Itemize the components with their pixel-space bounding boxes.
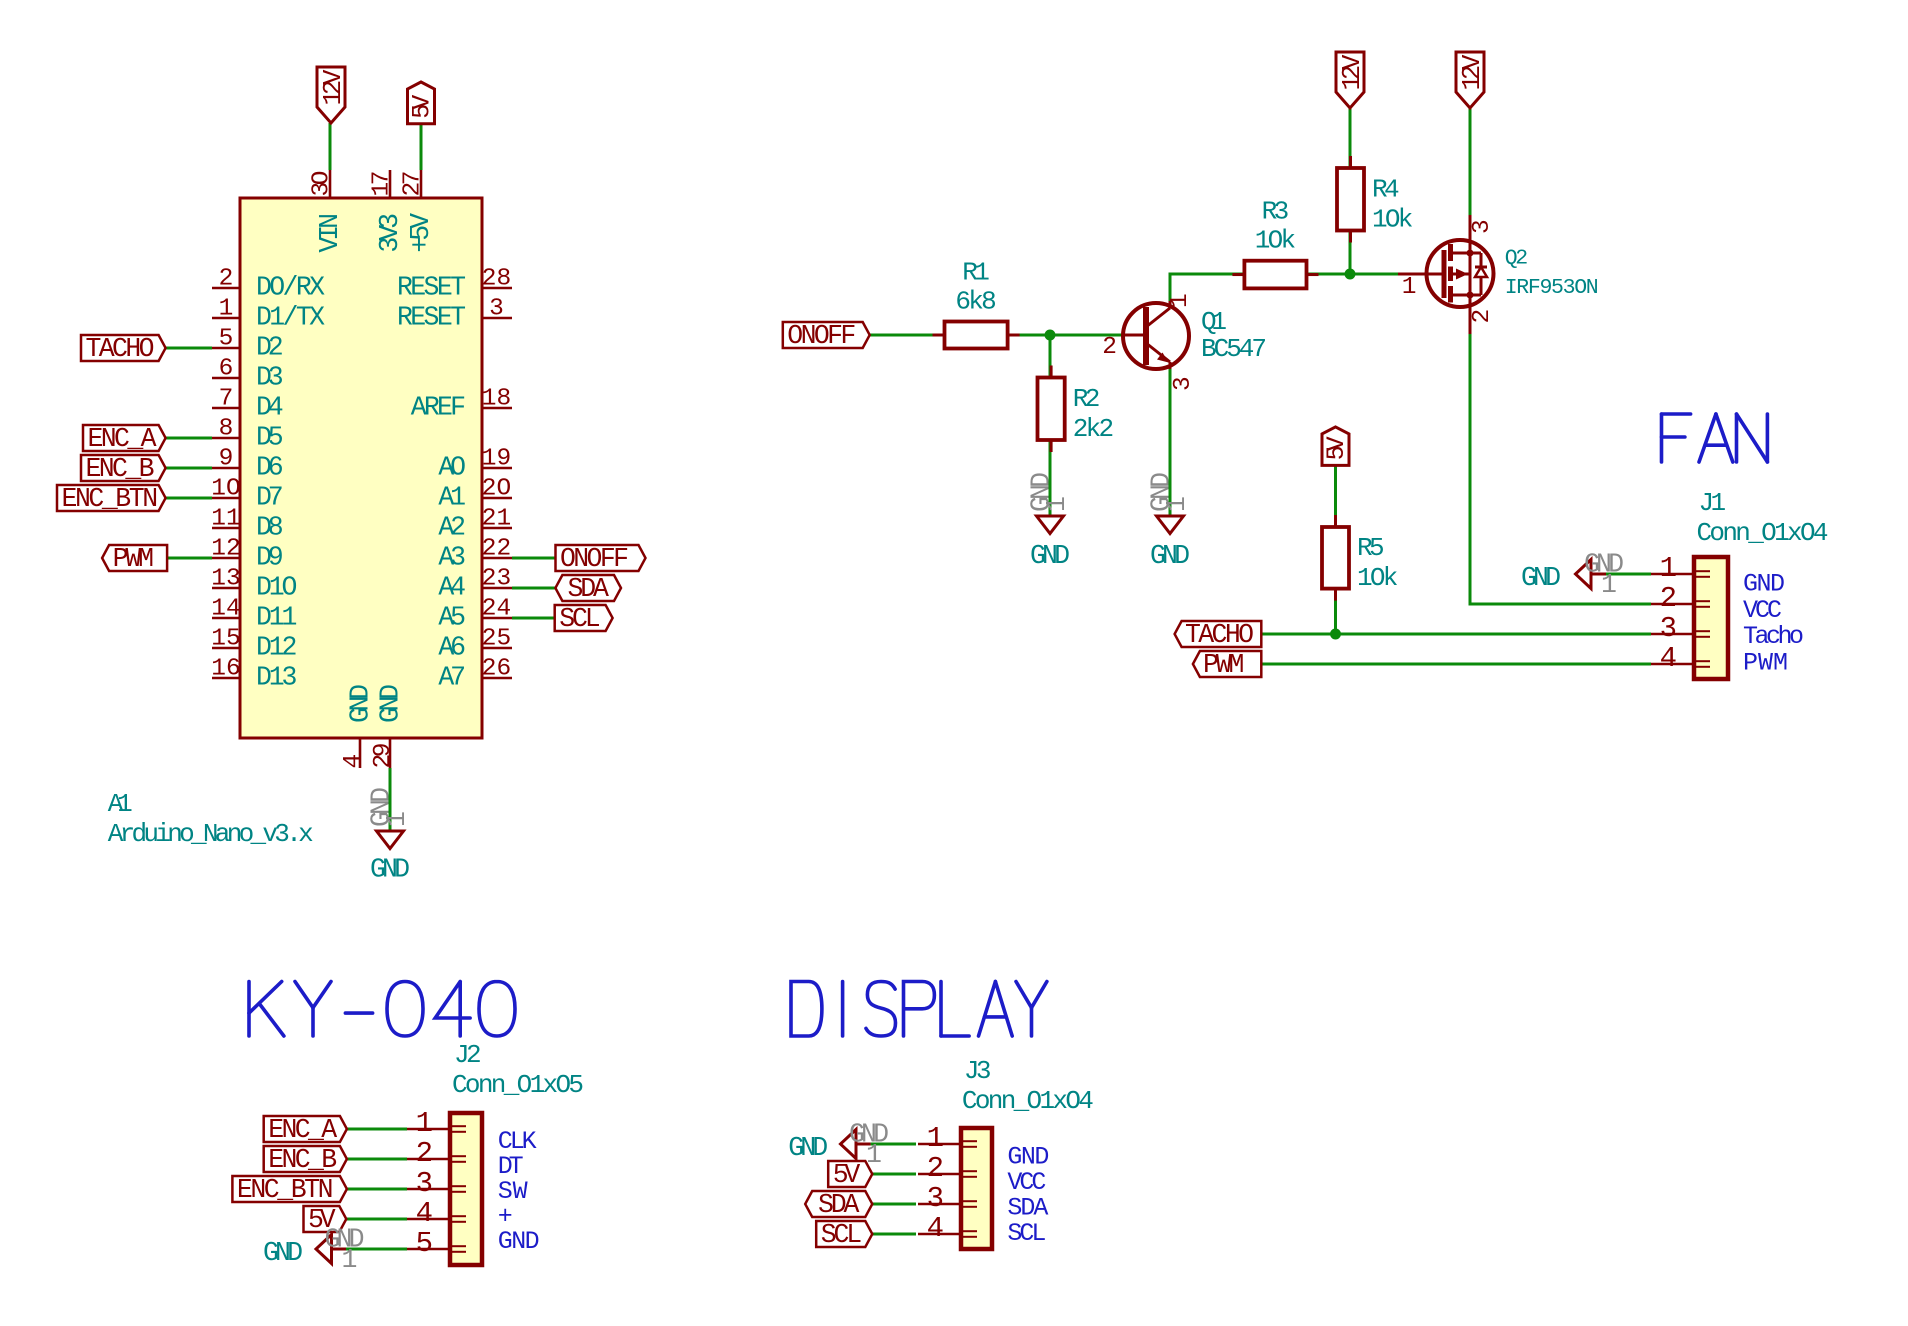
- wire ENC_A label to D5: [166, 437, 212, 440]
- svg-text:1Ok: 1Ok: [1255, 226, 1296, 256]
- svg-text:J3: J3: [964, 1056, 992, 1086]
- pin 5 D2: [212, 326, 284, 363]
- net label ONOFF: [556, 544, 646, 574]
- wire junction down to R2: [1049, 335, 1052, 378]
- svg-text:A1: A1: [108, 789, 133, 819]
- svg-text:4: 4: [340, 754, 367, 769]
- transistor Q1 BC547: [1102, 293, 1267, 391]
- wire PWM label to D9: [167, 557, 212, 560]
- svg-text:22: 22: [482, 536, 511, 563]
- svg-text:1: 1: [382, 811, 412, 827]
- svg-text:A5: A5: [438, 603, 466, 633]
- svg-text:ENC_BTN: ENC_BTN: [237, 1175, 334, 1205]
- svg-text:3: 3: [416, 1167, 433, 1200]
- svg-text:18: 18: [482, 386, 511, 413]
- svg-text:D1/TX: D1/TX: [256, 303, 325, 333]
- svg-text:29: 29: [370, 743, 397, 769]
- wire 12V to R4: [1349, 108, 1352, 168]
- svg-text:PWM: PWM: [1203, 650, 1244, 680]
- wire GND symbol to J2 pin 5: [346, 1248, 407, 1251]
- svg-text:1: 1: [342, 1245, 358, 1275]
- resistor R2 2k2: [1038, 366, 1115, 453]
- svg-text:1: 1: [927, 1122, 944, 1155]
- svg-text:GND: GND: [1521, 563, 1561, 593]
- svg-text:5V: 5V: [1322, 436, 1351, 460]
- svg-text:4: 4: [416, 1197, 433, 1230]
- svg-text:J1: J1: [1699, 488, 1727, 518]
- svg-text:28: 28: [482, 266, 511, 293]
- svg-text:PWM: PWM: [113, 544, 154, 574]
- svg-text:VIN: VIN: [315, 213, 345, 253]
- svg-text:2: 2: [219, 266, 234, 293]
- wire GND symbol to J1 pin 1: [1606, 573, 1651, 576]
- wire ONOFF label to R1: [870, 334, 944, 337]
- svg-text:5: 5: [416, 1227, 433, 1260]
- wire SCL label to J3 pin 4: [872, 1233, 916, 1236]
- svg-text:1: 1: [1601, 570, 1617, 600]
- wire R3 to junction to Q2 gate: [1307, 273, 1399, 276]
- svg-text:D12: D12: [256, 633, 297, 663]
- svg-text:3O: 3O: [309, 171, 336, 197]
- svg-text:D4: D4: [256, 393, 284, 423]
- wire 5V label to J2 pin 4: [346, 1218, 407, 1221]
- pin 10 D7: [211, 476, 283, 513]
- net label ENC_BTN: [57, 484, 166, 514]
- wire ENC_A label to J2 pin 1: [347, 1128, 407, 1131]
- svg-text:ONOFF: ONOFF: [787, 321, 856, 351]
- svg-text:1: 1: [1660, 552, 1677, 585]
- svg-text:2: 2: [1469, 309, 1496, 324]
- svg-text:2: 2: [416, 1137, 433, 1170]
- net label PWM: [102, 544, 167, 574]
- net label SCL: [555, 604, 613, 634]
- power flag 12V at VIN: [317, 67, 348, 123]
- svg-text:12V: 12V: [1458, 54, 1487, 91]
- ground symbol at J2 pin 5: [263, 1225, 365, 1276]
- svg-text:4: 4: [1660, 642, 1677, 675]
- svg-text:3V3: 3V3: [375, 213, 405, 253]
- svg-text:SDA: SDA: [818, 1190, 859, 1220]
- svg-text:D11: D11: [256, 603, 297, 633]
- svg-text:1: 1: [1042, 496, 1072, 512]
- wire 12V to Q2 source pin 3: [1469, 108, 1472, 215]
- svg-text:IRF953ON: IRF953ON: [1505, 276, 1599, 300]
- wire ENC_B label to J2 pin 2: [347, 1158, 407, 1161]
- svg-text:D1O: D1O: [256, 573, 297, 603]
- svg-text:15: 15: [211, 626, 240, 653]
- svg-text:GND: GND: [1150, 541, 1190, 571]
- svg-text:2: 2: [1660, 582, 1677, 615]
- J1 pin names GND VCC Tacho PWM: [1743, 570, 1804, 678]
- reference A1: [108, 789, 133, 819]
- value Arduino_Nano_v3.x: [108, 819, 314, 849]
- svg-text:D3: D3: [256, 363, 284, 393]
- wire A4 to SDA label: [512, 587, 557, 590]
- svg-text:26: 26: [482, 656, 511, 683]
- svg-text:GND: GND: [263, 1238, 303, 1268]
- svg-text:D2: D2: [256, 333, 284, 363]
- pin 20 A1: [438, 476, 512, 513]
- svg-text:2: 2: [927, 1152, 944, 1185]
- svg-text:Q2: Q2: [1505, 247, 1529, 271]
- svg-text:PWM: PWM: [1743, 648, 1788, 677]
- svg-text:2k2: 2k2: [1073, 414, 1114, 444]
- svg-text:TACHO: TACHO: [86, 334, 155, 364]
- svg-text:5V: 5V: [408, 95, 437, 119]
- wire 5V to R5: [1334, 465, 1337, 527]
- svg-text:AO: AO: [438, 453, 466, 483]
- junction at R5/TACHO: [1330, 629, 1341, 640]
- svg-text:GND: GND: [346, 684, 376, 723]
- svg-text:1Ok: 1Ok: [1372, 204, 1413, 234]
- svg-text:BC547: BC547: [1201, 334, 1267, 364]
- sheet title DISPLAY: [791, 982, 1047, 1037]
- svg-text:D13: D13: [256, 663, 297, 693]
- sheet title KY-040: [249, 982, 515, 1037]
- svg-text:12V: 12V: [1338, 54, 1367, 91]
- wire A3 to ONOFF label: [512, 557, 556, 560]
- svg-text:RESET: RESET: [397, 273, 466, 303]
- svg-text:1: 1: [416, 1107, 433, 1140]
- svg-text:3: 3: [927, 1182, 944, 1215]
- svg-text:ENC_A: ENC_A: [268, 1115, 337, 1145]
- pin 14 D11: [211, 596, 297, 633]
- svg-text:A7: A7: [438, 663, 466, 693]
- net label ENC_BTN at J2: [232, 1175, 347, 1205]
- pin 12 D9: [211, 536, 283, 573]
- svg-text:J2: J2: [454, 1040, 482, 1070]
- wire GND symbol to J3 pin 1: [871, 1143, 916, 1146]
- svg-text:4: 4: [927, 1212, 944, 1245]
- power flag 12V at R4: [1336, 52, 1367, 108]
- junction at R3/R4/Q2 gate: [1345, 269, 1356, 280]
- wire 5V to +5V pin 27: [420, 124, 423, 170]
- svg-text:GND: GND: [376, 684, 406, 723]
- svg-text:GND: GND: [1030, 541, 1070, 571]
- wire R2 to GND: [1049, 440, 1052, 516]
- net label ENC_B at J2: [264, 1145, 347, 1175]
- svg-text:D7: D7: [256, 483, 284, 513]
- svg-text:23: 23: [482, 566, 511, 593]
- svg-text:SCL: SCL: [559, 604, 600, 634]
- svg-text:SDA: SDA: [568, 574, 609, 604]
- svg-text:GND: GND: [498, 1227, 540, 1256]
- net label SCL at J3: [816, 1220, 872, 1250]
- svg-text:1O: 1O: [211, 476, 240, 503]
- svg-text:Arduino_Nano_v3.x: Arduino_Nano_v3.x: [108, 819, 314, 849]
- svg-text:17: 17: [369, 171, 396, 197]
- power flag 12V at Q2: [1456, 52, 1487, 108]
- net label TACHO at FAN: [1175, 620, 1262, 650]
- wire Q2 drain pin 2 to J1 VCC: [1470, 334, 1651, 604]
- svg-text:19: 19: [482, 446, 511, 473]
- pin 29 GND (bottom): [370, 684, 406, 769]
- pin 19 A0: [438, 446, 512, 483]
- ground symbol at pin 29: [367, 787, 413, 885]
- wire TACHO label to D2: [166, 347, 212, 350]
- svg-text:8: 8: [219, 416, 234, 443]
- net label 5V at J3: [828, 1160, 872, 1190]
- ground symbol under R2: [1027, 472, 1073, 571]
- junction at R1/R2/Q1 base: [1045, 330, 1056, 341]
- power flag 5V at R5: [1322, 427, 1351, 466]
- pin 26 A7: [438, 656, 512, 693]
- svg-text:1: 1: [219, 296, 234, 323]
- svg-text:SCL: SCL: [1007, 1219, 1046, 1248]
- svg-text:DO/RX: DO/RX: [256, 273, 325, 303]
- svg-text:ENC_B: ENC_B: [268, 1145, 337, 1175]
- svg-text:5V: 5V: [833, 1160, 861, 1190]
- svg-text:VCC: VCC: [1743, 596, 1782, 625]
- wire pin 29 to GND: [389, 768, 392, 831]
- net label ENC_A: [83, 424, 166, 454]
- net label ONOFF at R1: [783, 321, 870, 351]
- net label SDA: [555, 574, 621, 604]
- arduino nano A1 body: [240, 198, 482, 738]
- svg-text:ENC_BTN: ENC_BTN: [62, 484, 159, 514]
- resistor R3 10k: [1232, 197, 1318, 289]
- pin 8 D5: [212, 416, 284, 453]
- svg-text:AREF: AREF: [411, 393, 466, 423]
- pin 11 D8: [211, 506, 283, 543]
- svg-text:A6: A6: [438, 633, 466, 663]
- svg-text:A3: A3: [438, 543, 466, 573]
- pin 7 D4: [212, 386, 284, 423]
- net label PWM at FAN: [1193, 650, 1261, 680]
- svg-text:3: 3: [1660, 612, 1677, 645]
- svg-text:13: 13: [211, 566, 240, 593]
- svg-text:ONOFF: ONOFF: [560, 544, 629, 574]
- net label TACHO: [81, 334, 166, 364]
- svg-text:3: 3: [1170, 376, 1197, 391]
- wire PWM label to J1 PWM: [1261, 663, 1651, 666]
- svg-text:R3: R3: [1262, 197, 1290, 227]
- svg-text:ENC_B: ENC_B: [86, 454, 155, 484]
- wire TACHO label to J1 Tacho: [1261, 633, 1651, 636]
- net label SDA at J3: [805, 1190, 872, 1220]
- wire SDA label to J3 pin 3: [872, 1203, 916, 1206]
- pin 18 AREF: [411, 386, 512, 423]
- svg-text:ENC_A: ENC_A: [88, 424, 157, 454]
- svg-text:2: 2: [1102, 334, 1117, 361]
- svg-text:Tacho: Tacho: [1743, 622, 1804, 651]
- wire ENC_BTN label to D7: [166, 497, 212, 500]
- svg-text:R1: R1: [962, 258, 990, 288]
- svg-text:R5: R5: [1357, 533, 1385, 563]
- wire ENC_BTN label to J2 pin 3: [347, 1188, 407, 1191]
- svg-text:12V: 12V: [319, 69, 348, 106]
- J2 pin names CLK DT SW + GND: [498, 1127, 540, 1256]
- svg-text:16: 16: [211, 656, 240, 683]
- wire R4 to junction: [1349, 231, 1352, 275]
- pin 17 3V3 (top): [369, 170, 406, 253]
- svg-text:RESET: RESET: [397, 303, 466, 333]
- svg-text:A2: A2: [438, 513, 466, 543]
- svg-text:SCL: SCL: [821, 1220, 862, 1250]
- svg-text:A4: A4: [438, 573, 466, 603]
- wire R5 to junction: [1334, 589, 1337, 634]
- svg-text:Conn_O1xO4: Conn_O1xO4: [962, 1086, 1094, 1116]
- pin 23 A4: [438, 566, 512, 603]
- sheet title FAN: [1662, 414, 1768, 462]
- pin 2 D0/RX: [212, 266, 325, 303]
- pin 27 +5V (top): [400, 170, 437, 253]
- connector J1 Conn_01x04: [1651, 488, 1829, 679]
- svg-text:11: 11: [211, 506, 240, 533]
- svg-text:21: 21: [482, 506, 511, 533]
- wire 12V to VIN pin 30: [329, 123, 332, 170]
- svg-text:D9: D9: [256, 543, 284, 573]
- pin 1 D1/TX: [212, 296, 325, 333]
- resistor R5 10k: [1322, 515, 1398, 601]
- connector J2 Conn_01x05: [407, 1040, 584, 1265]
- svg-text:1: 1: [1162, 496, 1192, 512]
- svg-text:6k8: 6k8: [955, 287, 996, 317]
- J3 pin names GND VCC SDA SCL: [1007, 1143, 1049, 1249]
- pin 3 RESET: [397, 296, 512, 333]
- wire 5V label to J3 pin 2: [872, 1173, 916, 1176]
- svg-text:3: 3: [489, 296, 504, 323]
- net label ENC_B: [81, 454, 166, 484]
- svg-text:1: 1: [1402, 274, 1417, 301]
- svg-text:D5: D5: [256, 423, 284, 453]
- svg-text:A1: A1: [438, 483, 466, 513]
- pin 28 RESET: [397, 266, 512, 303]
- pin 13 D10: [211, 566, 297, 603]
- svg-text:25: 25: [482, 626, 511, 653]
- pin 24 A5: [438, 596, 512, 633]
- pin 4 GND (bottom): [340, 684, 376, 769]
- svg-text:GND: GND: [370, 855, 410, 885]
- resistor R4 10k: [1337, 156, 1413, 243]
- svg-text:27: 27: [400, 171, 427, 197]
- svg-text:14: 14: [211, 596, 240, 623]
- ground symbol at J3 pin 1: [788, 1120, 889, 1171]
- power flag 5V at +5V: [408, 82, 437, 124]
- svg-text:24: 24: [482, 596, 511, 623]
- svg-text:12: 12: [211, 536, 240, 563]
- svg-text:TACHO: TACHO: [1185, 620, 1254, 650]
- svg-text:2O: 2O: [482, 476, 511, 503]
- net label 5V at J2: [304, 1205, 347, 1235]
- svg-text:R4: R4: [1372, 174, 1400, 204]
- ground symbol at J1 pin 1: [1521, 550, 1624, 601]
- svg-text:GND: GND: [788, 1133, 828, 1163]
- pin 30 VIN (top): [309, 170, 346, 253]
- pin 16 D13: [211, 656, 297, 693]
- svg-text:1: 1: [1167, 293, 1194, 308]
- svg-text:3: 3: [1469, 219, 1496, 234]
- svg-text:R2: R2: [1073, 384, 1101, 414]
- connector J3 Conn_01x04: [918, 1056, 1094, 1249]
- wire Q1 collector to R3: [1170, 274, 1244, 303]
- pin 21 A2: [438, 506, 512, 543]
- ground symbol under Q1: [1147, 472, 1193, 571]
- wire A5 to SCL label: [512, 617, 555, 620]
- svg-text:+5V: +5V: [406, 213, 436, 253]
- svg-text:1Ok: 1Ok: [1357, 563, 1398, 593]
- pin 15 D12: [211, 626, 297, 663]
- net label ENC_A at J2: [264, 1115, 347, 1145]
- wire R1 to junction to Q1 base: [1008, 334, 1122, 337]
- pin 25 A6: [438, 626, 512, 663]
- transistor Q2 IRF9530N: [1398, 215, 1599, 334]
- resistor R1 6k8: [933, 258, 1020, 349]
- svg-text:Conn_O1xO5: Conn_O1xO5: [452, 1070, 584, 1100]
- wire ENC_B label to D6: [166, 467, 212, 470]
- svg-text:5: 5: [219, 326, 234, 353]
- svg-text:GND: GND: [1743, 570, 1785, 599]
- svg-text:9: 9: [219, 446, 234, 473]
- pin 22 A3: [438, 536, 512, 573]
- svg-text:D8: D8: [256, 513, 284, 543]
- svg-text:6: 6: [219, 356, 234, 383]
- svg-text:Conn_O1xO4: Conn_O1xO4: [1697, 518, 1829, 548]
- svg-text:D6: D6: [256, 453, 284, 483]
- wire Q1 emitter to GND: [1169, 368, 1172, 516]
- pin 9 D6: [212, 446, 284, 483]
- pin 6 D3: [212, 356, 284, 393]
- svg-text:7: 7: [219, 386, 234, 413]
- svg-text:Q1: Q1: [1201, 307, 1227, 337]
